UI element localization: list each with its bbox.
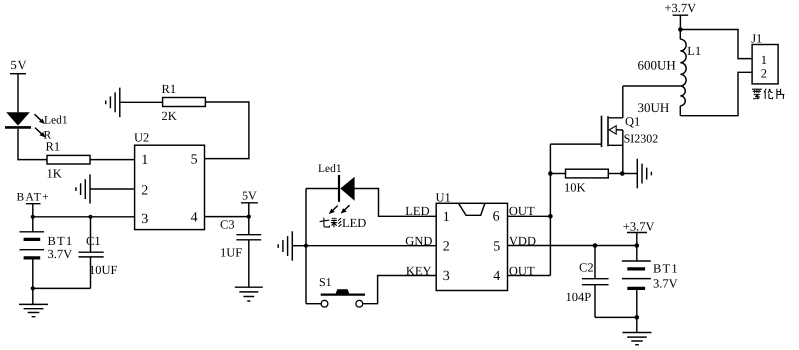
svg-text:R1: R1: [46, 140, 61, 154]
svg-text:R1: R1: [162, 82, 177, 96]
wire battery bottom to C1 bottom: [33, 287, 91, 289]
svg-text:+3.7V: +3.7V: [623, 220, 655, 234]
wire 5V to LED: [17, 74, 19, 113]
svg-text:+3.7V: +3.7V: [665, 1, 697, 15]
ground (for R1 2K): [106, 88, 120, 118]
capacitor C3 1UF: [220, 217, 261, 288]
svg-text:C3: C3: [220, 218, 235, 232]
wire R1 to U2 pin 1: [90, 159, 135, 161]
power flag 5V (middle): [241, 189, 258, 217]
svg-text:SI2302: SI2302: [624, 132, 659, 146]
svg-text:5: 5: [191, 153, 198, 168]
svg-text:U2: U2: [134, 131, 149, 145]
svg-text:104P: 104P: [566, 290, 592, 304]
wire R1 2K to U2 pin 5: [205, 102, 249, 159]
svg-text:1K: 1K: [47, 167, 62, 181]
svg-text:1: 1: [761, 53, 767, 67]
ground (under C3): [235, 287, 263, 301]
svg-text:3.7V: 3.7V: [48, 247, 73, 261]
node +3.7V / L1: [678, 27, 683, 32]
node 5V / C3: [247, 215, 251, 219]
svg-text:BAT+: BAT+: [17, 192, 50, 204]
node VDD / C2: [593, 243, 598, 248]
wire node to LED cathode: [306, 188, 338, 190]
svg-text:2: 2: [761, 67, 767, 81]
node OUT pin 6: [548, 214, 553, 219]
wire node to 10K: [550, 173, 565, 175]
wire J1 pin 2 to L1 bottom: [680, 72, 752, 115]
svg-text:C2: C2: [579, 261, 594, 275]
svg-text:1: 1: [443, 210, 450, 225]
push button S1: [319, 275, 365, 307]
node battery bottom: [635, 315, 640, 320]
svg-text:2: 2: [141, 184, 148, 199]
svg-text:3: 3: [443, 269, 450, 284]
emission arrow 1: [329, 206, 338, 214]
svg-text:BT1: BT1: [48, 234, 74, 248]
wire +3.7V to J1 pin 1: [680, 30, 752, 59]
wire LED anode to U1 pin 1: [355, 189, 437, 217]
wire ground to U2 pin 2: [90, 188, 135, 190]
transistor Q1 SI2302: [602, 114, 659, 147]
svg-text:U1: U1: [436, 190, 451, 204]
svg-text:600UH: 600UH: [638, 57, 676, 72]
wire gate: [550, 143, 601, 145]
wire U1 pin 6 to OUT node: [508, 215, 551, 217]
battery BT1 3.7V (right): [622, 246, 679, 318]
svg-text:4: 4: [493, 269, 500, 284]
svg-text:4: 4: [191, 210, 198, 225]
svg-text:10UF: 10UF: [89, 263, 118, 277]
svg-text:3.7V: 3.7V: [653, 276, 678, 290]
svg-text:3: 3: [141, 212, 148, 227]
svg-text:L1: L1: [687, 44, 701, 58]
wire OUT bus vertical: [549, 144, 551, 275]
wire C2 bottom to battery bottom: [595, 316, 637, 318]
IC U1: [436, 190, 508, 290]
svg-text:5V: 5V: [11, 58, 28, 72]
LED Led1 (left, cathode down): [5, 112, 31, 127]
svg-text:KEY: KEY: [406, 264, 432, 278]
svg-text:J1: J1: [751, 31, 762, 45]
svg-text:BT1: BT1: [653, 262, 679, 276]
svg-text:30UH: 30UH: [638, 100, 670, 115]
wire drain up to tap: [622, 86, 624, 118]
wire left branch vertical: [305, 189, 307, 304]
power flag +3.7V (top): [665, 1, 697, 29]
ground (bottom-left): [19, 288, 48, 316]
svg-text:LED: LED: [342, 216, 366, 230]
wire U2 pin 4 to 5V node: [205, 216, 249, 218]
wire source down to node: [622, 130, 624, 174]
LED Led1 七彩LED (points left): [339, 175, 355, 202]
wire 10K to source node: [608, 173, 622, 175]
node GND: [304, 244, 308, 248]
emission arrow 2: [341, 205, 350, 213]
wire U1 pin 5 VDD rail: [508, 245, 637, 247]
resistor R1 1K: [46, 140, 91, 181]
node source/ground: [620, 171, 625, 176]
resistor R1 2K: [162, 82, 206, 123]
svg-text:2K: 2K: [162, 109, 177, 123]
wire ground to R1 2K: [120, 101, 163, 103]
IC U2: [134, 131, 205, 230]
svg-text:1UF: 1UF: [220, 245, 242, 259]
ground (middle, at GND node): [278, 231, 292, 260]
svg-text:Q1: Q1: [625, 114, 640, 128]
battery BT1 3.7V (left): [20, 217, 74, 289]
ground (bottom-right): [623, 317, 652, 344]
svg-text:10K: 10K: [564, 181, 586, 195]
svg-text:1: 1: [141, 153, 148, 168]
svg-text:5: 5: [493, 239, 500, 254]
annotation arrow to Led1 label: [35, 114, 45, 124]
power flag +3.7V (middle-right): [623, 220, 655, 246]
node battery bottom: [31, 286, 35, 290]
wire S1 right to U1 pin 3: [363, 276, 437, 304]
node 10K left: [548, 171, 553, 176]
annotation arrow to R label: [35, 128, 45, 138]
svg-text:6: 6: [493, 210, 500, 225]
svg-text:Led1: Led1: [318, 163, 342, 175]
wire ground to GND node: [292, 245, 306, 247]
inductor L1 600UH / 30UH: [638, 30, 702, 116]
wire LED to resistor R1: [18, 129, 47, 160]
svg-text:S1: S1: [319, 275, 332, 289]
wire node to ground: [622, 173, 637, 175]
svg-text:GND: GND: [405, 234, 432, 248]
node C1 top: [88, 215, 92, 219]
svg-text:C1: C1: [86, 234, 101, 248]
ground (Q1 source): [637, 159, 651, 189]
power flag 5V (top-left): [10, 58, 27, 74]
wire BAT+ to U2 pin 3: [33, 216, 135, 218]
wire GND node to U1 pin 2: [306, 245, 436, 247]
capacitor C2 104P: [566, 246, 609, 318]
svg-text:LED: LED: [405, 204, 429, 218]
node VDD / BT1: [635, 243, 640, 248]
label 雾化片: [752, 89, 784, 99]
wire S1 left: [306, 303, 321, 305]
label 七彩LED: [320, 216, 367, 230]
svg-text:2: 2: [443, 239, 450, 254]
connector J1: [751, 31, 778, 84]
wire tap to Q1 drain: [623, 85, 681, 87]
power flag BAT+: [17, 192, 50, 217]
ground (U2 pin 2): [76, 174, 90, 203]
capacitor C1 10UF: [79, 217, 118, 289]
svg-text:Led1: Led1: [44, 114, 68, 126]
svg-text:5V: 5V: [242, 189, 257, 203]
resistor 10K: [564, 169, 608, 194]
node BAT+: [31, 215, 35, 219]
wire U1 pin 4 to OUT node: [508, 275, 551, 277]
